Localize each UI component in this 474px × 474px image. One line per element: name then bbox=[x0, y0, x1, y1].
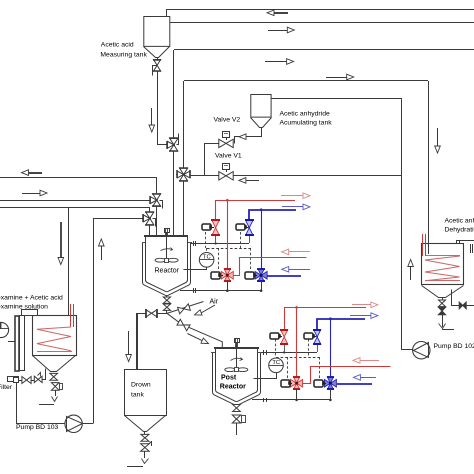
flow arrow down thick (drown line annotation) bbox=[60, 222, 62, 258]
coil (red) hexamine bbox=[37, 327, 71, 351]
flow arrow left red (post reactor in) bbox=[360, 360, 379, 362]
flow arrow up (dehydrator left) bbox=[410, 266, 412, 280]
pipe L1 top return line bbox=[167, 9, 474, 11]
pipe V1 line bbox=[190, 175, 219, 177]
red cross valve post reactor bbox=[291, 379, 297, 387]
solenoid box (blue ctrl B2) bbox=[304, 333, 313, 339]
flow arrow right red (post reactor) bbox=[352, 304, 371, 306]
svg-text:Hexamine + Acetic acid: Hexamine + Acetic acid bbox=[0, 294, 63, 301]
coil (red) dehydrator bbox=[426, 255, 460, 257]
svg-text:Acetic anhydride: Acetic anhydride bbox=[445, 218, 474, 225]
red return pipe into RC1 bbox=[234, 258, 307, 276]
pipe: pump BD103 riser to valve B left bbox=[94, 219, 143, 424]
valve V1 (control valve) bbox=[219, 172, 226, 180]
tank: Acetic acid Measuring tank bbox=[144, 17, 170, 47]
flow arrow right bbox=[22, 193, 40, 195]
svg-text:Acumulating tank: Acumulating tank bbox=[280, 120, 333, 127]
pipe to drown tank with valve bbox=[137, 313, 167, 315]
post reactor inner vessel bbox=[216, 348, 258, 401]
svg-text:Pump BD 103: Pump BD 103 bbox=[16, 424, 59, 431]
TC instrument post reactor bbox=[269, 358, 284, 373]
reactor 1 inner vessel bbox=[146, 236, 188, 292]
post reactor bottom valves bbox=[236, 404, 238, 407]
red return pipe into RC2 bbox=[303, 367, 391, 384]
flow arrow right red (reactor 1) bbox=[281, 195, 303, 197]
tank: Drown tank bbox=[125, 370, 167, 416]
flow arrow right blue (post reactor) bbox=[350, 315, 371, 317]
pump BD 102 bbox=[413, 342, 430, 359]
post reactor agitator shaft bbox=[235, 338, 237, 348]
flow arrow left bbox=[28, 172, 42, 174]
dashed signal manifold post reactor bbox=[276, 357, 320, 359]
blue supply pipe reactor 1 bbox=[249, 210, 296, 228]
svg-text:Reactor: Reactor bbox=[220, 384, 246, 391]
flow arrow right under L3 bbox=[265, 61, 287, 63]
hexamine tank bottom valves bbox=[53, 371, 55, 372]
flow arrow left red (reactor 1 in) bbox=[289, 251, 310, 253]
right edge connection stubs bbox=[470, 244, 472, 253]
pipe: accumulating tank bottom to valve V2 bbox=[235, 128, 262, 144]
pipe to reactor valve A top bbox=[0, 177, 157, 179]
flow arrow right under L2 bbox=[268, 30, 287, 32]
pipe to reactor valve A left bbox=[0, 200, 150, 202]
TC instrument reactor 1 bbox=[199, 252, 214, 267]
solenoid box (red ctrl R2) bbox=[270, 333, 279, 339]
svg-text:Reactor: Reactor bbox=[155, 267, 180, 274]
pipe: hexamine riser to valve B top bbox=[0, 207, 150, 209]
feed pump (left edge) bbox=[0, 322, 9, 337]
svg-text:tank: tank bbox=[131, 392, 144, 399]
post reactor top plate bbox=[214, 347, 259, 349]
reactor 1 bottom valves bbox=[166, 296, 168, 297]
red supply pipe post reactor bbox=[284, 307, 366, 309]
flow arrow right above L4 bbox=[326, 77, 347, 79]
valve D (3-way on L4 drop) bbox=[180, 168, 188, 174]
dashed signal manifold reactor 1 bbox=[207, 248, 251, 250]
solenoid box (red ctrl valve R1) bbox=[202, 224, 211, 230]
reactor 1 vortex symbol bbox=[161, 249, 173, 251]
valve V2 (control valve) bbox=[219, 139, 226, 147]
svg-text:Acetic anhydride: Acetic anhydride bbox=[280, 111, 330, 118]
transfer line to post reactor with valve F bbox=[167, 313, 222, 348]
pump BD 103 bbox=[65, 415, 82, 432]
post reactor propeller bbox=[225, 368, 235, 372]
reactor 1 supply pipe with flange bbox=[191, 243, 249, 245]
red supply pipe reactor 1 (steam out) bbox=[216, 200, 295, 202]
filter drain to pump suction bbox=[17, 383, 65, 424]
air inlet line with valve E bbox=[167, 302, 204, 314]
valve A (3-way) bbox=[153, 194, 161, 200]
svg-text:Acetic acid: Acetic acid bbox=[101, 42, 134, 49]
post reactor agitator motor bbox=[235, 339, 240, 343]
valve under dehydrator 1 bbox=[442, 298, 444, 300]
post reactor supply pipe with flange bbox=[261, 352, 317, 354]
svg-text:Post: Post bbox=[221, 375, 237, 382]
pipe L4 feed line bbox=[184, 80, 428, 82]
blue control valve post reactor bbox=[314, 330, 321, 337]
drain arrow drown tank bbox=[142, 459, 149, 464]
filter bottom assembly bbox=[8, 377, 19, 382]
pipe valve A to reactor nozzle bbox=[156, 206, 158, 235]
filter columns bbox=[15, 316, 19, 371]
valve C (3-way on L3 drop) bbox=[170, 139, 178, 145]
pipe valve C to reactor nozzle bbox=[173, 151, 175, 235]
steam inlet (red) dehydrator bbox=[422, 234, 424, 256]
flow arrow diagonal (transfer) bbox=[187, 334, 202, 341]
dehydrator side branch valve (solid) bbox=[452, 290, 460, 306]
valve under dehydrator 2 (solid) bbox=[438, 307, 445, 311]
reactor 1 propeller bbox=[155, 258, 165, 262]
flow arrow left blue (reactor 1 in) bbox=[289, 269, 310, 271]
valve under measuring tank (hand valve with handle) bbox=[157, 57, 159, 60]
flow arrow right blue (reactor 1) bbox=[282, 206, 303, 208]
pipe: V2 to V1 line bbox=[205, 144, 219, 176]
flow arrow down (measuring tank line) bbox=[151, 108, 153, 125]
tank: dehydrating tank body bbox=[422, 244, 464, 285]
reactor 1 jacket (outer) bbox=[143, 243, 191, 296]
post reactor jacket (outer) bbox=[213, 353, 261, 405]
flow arrow left (filled) on L1 bbox=[274, 12, 288, 14]
solenoid box (blue cross BC2) bbox=[314, 380, 323, 387]
reactor 1 agitator shaft bbox=[165, 228, 167, 236]
solenoid box (red cross RC1) bbox=[211, 272, 220, 279]
pipe valve B to reactor nozzle bbox=[149, 225, 151, 235]
drain arrow dehydrator bbox=[439, 324, 446, 329]
red cross valve reactor 1 bbox=[221, 271, 227, 279]
steam inlet (red) hexamine bbox=[70, 304, 72, 327]
flow arrow up (pump riser) bbox=[101, 246, 103, 260]
tank: hexamine dissolving tank bbox=[33, 316, 77, 356]
svg-text:Pump BD 102: Pump BD 102 bbox=[434, 343, 474, 350]
tank: Acetic anhydride Accumulating tank bbox=[251, 95, 271, 118]
reactor 1 agitator motor bbox=[165, 229, 170, 233]
svg-text:Filter: Filter bbox=[0, 384, 13, 391]
jacket manifold post reactor bbox=[252, 399, 330, 401]
svg-text:Dehydrating tank: Dehydrating tank bbox=[445, 227, 474, 234]
blue return pipe into BC2 bbox=[337, 383, 372, 385]
svg-text:Drown: Drown bbox=[131, 382, 151, 389]
flow arrow down (right box) bbox=[437, 128, 439, 146]
drain arrow hexamine bbox=[52, 397, 58, 402]
solenoid box (red cross RC2) bbox=[281, 380, 290, 387]
solenoid box (blue ctrl valve B1) bbox=[236, 224, 245, 230]
red control valve reactor 1 bbox=[212, 220, 219, 227]
reactor 1 top plate bbox=[144, 235, 188, 237]
flow arrow down (drown line) bbox=[128, 331, 130, 354]
pipe valve D to reactor nozzle bbox=[183, 181, 185, 235]
flow arrow left under V1 line bbox=[246, 180, 259, 182]
vapor outlet dehydrator top right bbox=[456, 241, 458, 244]
valve B (3-way) bbox=[146, 212, 154, 218]
jacket manifold reactor 1 bbox=[180, 290, 261, 292]
red control valve post reactor bbox=[281, 330, 288, 337]
blue supply pipe post reactor bbox=[317, 319, 365, 337]
pipe L3 feed line bbox=[174, 49, 474, 51]
svg-text:Valve V1: Valve V1 bbox=[215, 153, 242, 160]
svg-text:Measuring tank: Measuring tank bbox=[100, 52, 147, 59]
blue cross valve post reactor bbox=[324, 379, 330, 387]
flow arrow left blue (post reactor in) bbox=[360, 377, 376, 379]
solenoid box (blue cross BC1) bbox=[245, 272, 254, 279]
svg-text:Air: Air bbox=[210, 299, 219, 306]
pipe L5 from accumulating tank to right box bbox=[272, 99, 413, 350]
blue return pipe into BC1 bbox=[267, 275, 301, 277]
blue cross valve reactor 1 bbox=[255, 271, 261, 279]
post reactor vortex symbol bbox=[231, 358, 243, 360]
pipe: measuring tank line to valve C bbox=[158, 142, 169, 145]
blue control valve reactor 1 bbox=[246, 220, 253, 227]
svg-text:Valve V2: Valve V2 bbox=[214, 117, 241, 124]
pipe L2 from measuring tank bbox=[170, 22, 474, 24]
drown tank bottom valves bbox=[144, 432, 146, 434]
